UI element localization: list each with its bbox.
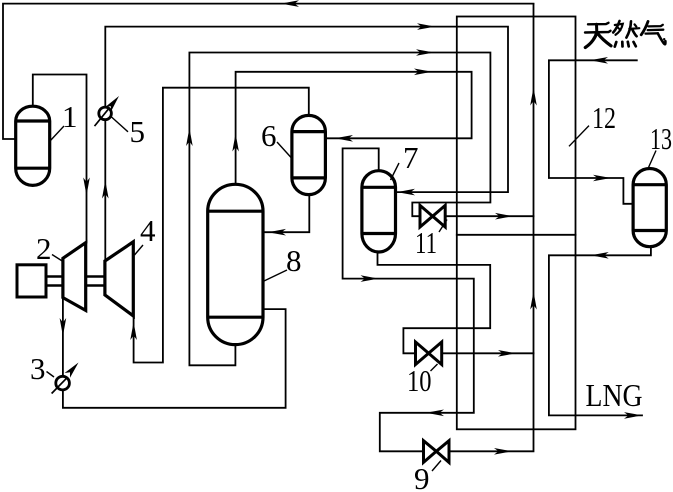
pointer line label 10 — [431, 364, 438, 371]
arrow right valve 10 outlet — [498, 350, 516, 357]
valve 5 (throttle with arrow) — [95, 96, 120, 126]
arrow up on x=105.3 to valve 5 — [102, 181, 109, 199]
valve 9 — [424, 441, 450, 463]
glyph ran — [613, 21, 639, 47]
svg-text:5: 5 — [130, 114, 146, 149]
pointer line label 6 — [277, 142, 292, 158]
svg-text:4: 4 — [140, 213, 156, 248]
arrow left into vessel 8 at y=232.2 — [268, 229, 286, 236]
vessel 6 — [292, 115, 326, 194]
svg-text:11: 11 — [415, 225, 437, 260]
wire: rung y=234.8 between x457 and x575 — [457, 234, 576, 236]
pointer line label 7 — [391, 163, 400, 180]
wire: vessel 8 bottom up riser x=189.5 line y=52.5 down to valve 11 — [189, 53, 490, 366]
svg-text:3: 3 — [30, 351, 46, 386]
arrow right on line y=52.5 — [416, 49, 434, 56]
vessel 13 — [633, 168, 666, 246]
vessel 1 — [16, 106, 50, 185]
compressor 2 body — [63, 243, 86, 311]
pointer line label 12 — [569, 126, 589, 147]
arrow right LNG outlet y=415.4 — [624, 412, 642, 419]
label tian-ran-qi (natural gas), hand-drawn glyphs — [585, 21, 665, 48]
pointer line label 9 — [432, 461, 441, 472]
pointer line label 13 — [649, 151, 657, 168]
valve 10 — [416, 342, 442, 365]
arrow right valve 9 outlet — [494, 448, 512, 455]
arrow left into vessel 7 at y=192.1 — [397, 189, 415, 196]
pointer line label 5 — [112, 117, 129, 132]
arrow right on line y=71.8 — [414, 69, 432, 76]
pointer line label 2 — [52, 255, 63, 262]
arrow up on x=133.6 into expander 4 — [130, 322, 137, 340]
arrow right on line y=26.6 — [417, 23, 435, 30]
motor M of compressor 2 — [17, 265, 46, 297]
vessel 7 — [362, 171, 396, 252]
glyph tian — [585, 23, 611, 48]
arrow left on vessel 13 bottom line y=255.3 — [591, 252, 609, 259]
wire: compressor 2 bottom to valve 3 — [62, 298, 64, 377]
pointer line label 8 — [264, 270, 287, 281]
arrow up on x=235.6 vessel 8 overhead — [232, 134, 239, 152]
arrow right into vessel 13 feed y=178 — [593, 175, 611, 182]
svg-text:13: 13 — [650, 121, 672, 156]
wire: natural gas feed into vessel 13 — [549, 60, 637, 204]
pointer line label 11 — [439, 220, 447, 233]
expander 4 body — [105, 242, 133, 316]
arrow up on collector x=533.5 upper — [530, 88, 537, 106]
svg-text:7: 7 — [403, 140, 419, 175]
arrow left on natural gas feed y=60.3 — [590, 57, 608, 64]
glyph qi — [641, 22, 665, 45]
svg-text:6: 6 — [261, 118, 277, 153]
wire: vessel 6 top to expander 4 inlet — [134, 88, 309, 363]
arrow down on x=62.9 to valve 3 — [60, 318, 67, 336]
valve 3 (throttle with arrow) — [52, 363, 79, 394]
arrow right valve 11 outlet — [495, 213, 513, 220]
pointer line label 1 — [50, 126, 64, 141]
arrow left on line y=412.8 — [426, 410, 444, 417]
svg-text:10: 10 — [407, 363, 432, 398]
shaft compressor 2 to expander 4 — [86, 277, 105, 286]
wire: vessel 8 top to line y=71.8 into vessel 6 — [236, 72, 472, 185]
svg-text:2: 2 — [36, 231, 52, 266]
wire: vessel 7 bottom to valve 10 — [378, 252, 491, 353]
arrow up on collector x=533.5 — [530, 292, 537, 310]
wire: valve 5 up to line y=26.6 into vessel 7 — [105, 27, 508, 193]
arrow left into vessel 6 at y=138.3 — [335, 135, 353, 142]
wire: valve 10 outlet to collector — [442, 352, 534, 354]
wire: valve 11 outlet to collector — [445, 215, 533, 217]
svg-text:1: 1 — [62, 99, 78, 134]
wire: vessel 6 bottom into vessel 8 upper side — [263, 194, 309, 232]
svg-text:12: 12 — [592, 100, 616, 135]
arrow down on x=86.5 into compressor 2 — [83, 178, 90, 196]
wire: collector top line to vessel 1 (y=4) — [3, 4, 534, 139]
pointer line label 3 — [47, 372, 55, 378]
wire: valve 3 to vessel 8 lower side nozzle — [63, 309, 286, 408]
svg-text:8: 8 — [286, 243, 302, 278]
wire: vessel 13 bottom to LNG outlet — [549, 246, 651, 415]
shaft motor to compressor 2 — [46, 277, 63, 286]
arrow right on line y=278.6 — [361, 275, 379, 282]
svg-text:9: 9 — [414, 461, 430, 492]
wire: expander 4 outlet up to valve 5 — [104, 120, 106, 261]
vessel 8 — [208, 184, 263, 344]
svg-text:LNG: LNG — [586, 377, 643, 413]
pointer line label 4 — [135, 245, 144, 255]
wire: vessel 1 top to compressor 2 inlet — [33, 75, 87, 243]
wire: big rectangle loop x457-575 — [457, 17, 576, 430]
valve 11 — [420, 205, 445, 227]
wire: valve 9 outlet to collector riser x=533.5 — [449, 4, 534, 451]
wire: vessel 7 top loop down to valve 9 — [343, 148, 474, 451]
arrow up on x=189.4 riser — [186, 128, 193, 146]
arrow left on top line y=4 — [281, 0, 299, 7]
